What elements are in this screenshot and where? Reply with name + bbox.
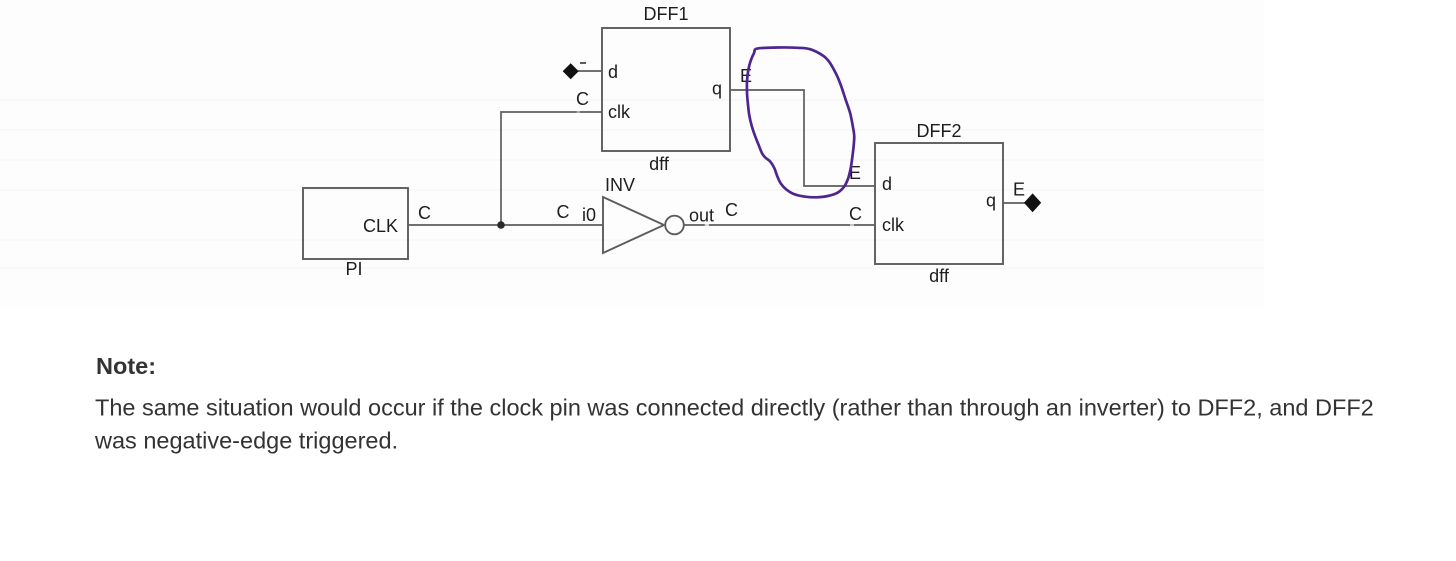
svg-text:INV: INV [605,175,635,195]
svg-text:PI: PI [345,259,362,279]
svg-text:q: q [986,191,996,211]
svg-text:d: d [608,62,618,82]
svg-text:out: out [689,206,714,226]
svg-text:Note:: Note: [96,353,156,379]
svg-text:C: C [576,89,589,109]
svg-text:q: q [712,79,722,99]
svg-text:d: d [882,174,892,194]
svg-text:C: C [725,200,738,220]
svg-text:dff: dff [929,266,950,286]
svg-text:C: C [849,204,862,224]
svg-text:dff: dff [649,154,670,174]
svg-text:was negative-edge triggered.: was negative-edge triggered. [94,428,398,454]
svg-text:i0: i0 [582,205,596,225]
svg-text:DFF2: DFF2 [917,121,962,141]
svg-text:C: C [418,203,431,223]
svg-text:C: C [557,202,570,222]
svg-text:clk: clk [608,102,631,122]
svg-text:The same situation would occur: The same situation would occur if the cl… [95,395,1374,421]
svg-text:DFF1: DFF1 [644,4,689,24]
svg-text:clk: clk [882,215,905,235]
svg-text:CLK: CLK [363,216,398,236]
svg-text:E: E [1013,180,1025,200]
